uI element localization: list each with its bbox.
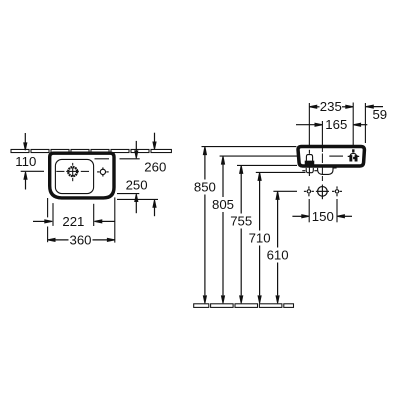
dimension 235 bbox=[309, 105, 353, 108]
dimension 110 (wall to hole centre) bbox=[21, 133, 44, 190]
svg-text:850: 850 bbox=[194, 180, 216, 195]
dimension 221 bbox=[33, 220, 115, 223]
tap hole symbol (plan view) bbox=[97, 167, 109, 176]
svg-text:805: 805 bbox=[212, 197, 234, 212]
805 reference segment inside basin bbox=[329, 155, 343, 157]
dimension 260 arrows bbox=[153, 133, 156, 217]
wall line (plan view, top) bbox=[11, 149, 171, 152]
tap fitting symbol (elevation) bbox=[302, 150, 317, 176]
drain symbol with centerlines (plan view) bbox=[56, 163, 89, 181]
dimension 59 bbox=[366, 105, 383, 108]
overflow symbol (elevation) bbox=[348, 150, 360, 161]
centre line through tap column (elevation) bbox=[321, 145, 323, 187]
height dimension 610 bbox=[276, 191, 279, 303]
extension lines below basin bbox=[48, 197, 115, 242]
svg-text:755: 755 bbox=[230, 214, 252, 229]
dimension 150 (fixing hole spacing) bbox=[292, 199, 352, 222]
svg-text:221: 221 bbox=[62, 214, 84, 229]
height dimension 805 bbox=[221, 156, 224, 303]
svg-text:59: 59 bbox=[372, 107, 387, 122]
height dimension 710 bbox=[258, 172, 261, 303]
left fixing hole (elevation) bbox=[304, 186, 314, 196]
height dimension 755 bbox=[240, 165, 243, 303]
svg-text:710: 710 bbox=[249, 231, 271, 246]
svg-text:150: 150 bbox=[312, 209, 334, 224]
svg-text:250: 250 bbox=[126, 178, 148, 193]
svg-text:610: 610 bbox=[267, 248, 289, 263]
drain outlet circle with cross (elevation) bbox=[316, 186, 329, 200]
dimension 360 (overall width) bbox=[48, 238, 115, 241]
reference line at bowl rear edge (for 250) bbox=[95, 158, 140, 160]
reference line at bowl front edge (for 250) bbox=[117, 193, 139, 195]
right fixing hole (elevation) bbox=[332, 186, 342, 196]
floor line (elevation, bottom) bbox=[194, 304, 294, 308]
dimension 165 bbox=[296, 123, 367, 126]
svg-text:360: 360 bbox=[69, 232, 91, 247]
height dimension 850 bbox=[203, 147, 206, 304]
reference line at basin front edge (for 260) bbox=[117, 198, 158, 200]
basin outer rim (plan view) bbox=[50, 153, 114, 198]
svg-text:110: 110 bbox=[15, 154, 36, 169]
svg-text:235: 235 bbox=[320, 99, 342, 114]
extension lines above basin (elevation) bbox=[309, 103, 365, 146]
svg-text:165: 165 bbox=[325, 117, 347, 132]
svg-text:260: 260 bbox=[144, 160, 166, 175]
drain trap outline below basin (elevation) bbox=[318, 168, 337, 175]
inner bowl outline (plan view) bbox=[55, 159, 93, 193]
dimension 250 arrows bbox=[135, 141, 138, 213]
height reference lines bbox=[202, 147, 306, 192]
basin body (front elevation) bbox=[298, 147, 364, 166]
